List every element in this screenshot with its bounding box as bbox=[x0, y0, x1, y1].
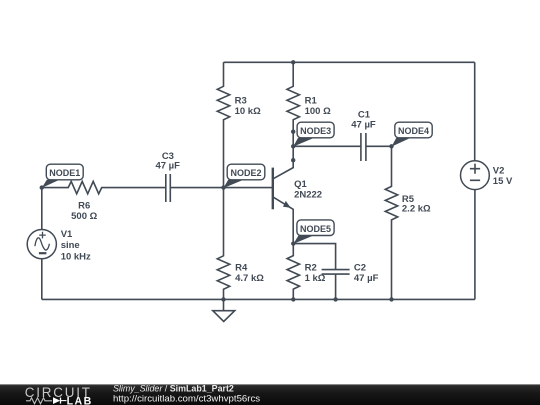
voltage source V1 bbox=[27, 230, 56, 259]
svg-text:R6: R6 bbox=[78, 200, 90, 211]
wire right rail upper bbox=[474, 62, 476, 161]
resistor R6 bbox=[42, 181, 166, 193]
wire NODE5 to C2 bbox=[293, 244, 335, 270]
svg-text:4.7 kΩ: 4.7 kΩ bbox=[235, 273, 264, 284]
wire R1 bottom to collector bbox=[292, 132, 294, 161]
svg-text:2.2 kΩ: 2.2 kΩ bbox=[402, 204, 431, 215]
footer title text bbox=[113, 384, 260, 405]
resistor R1 bbox=[287, 62, 299, 131]
capacitor C3 bbox=[166, 174, 224, 202]
svg-text:LAB: LAB bbox=[67, 396, 93, 405]
svg-text:10 kHz: 10 kHz bbox=[61, 251, 91, 262]
svg-text:47 µF: 47 µF bbox=[351, 119, 376, 130]
label C2 value bbox=[354, 262, 379, 284]
label R6 value bbox=[71, 200, 97, 222]
svg-text:http://circuitlab.com/ct3whvpt: http://circuitlab.com/ct3whvpt56rcs bbox=[113, 394, 260, 405]
svg-text:Q1: Q1 bbox=[294, 179, 307, 190]
voltage source V2 bbox=[461, 161, 490, 190]
svg-text:V1: V1 bbox=[61, 229, 73, 240]
resistor R5 bbox=[385, 146, 397, 299]
wire NODE4 down to R5 bbox=[391, 145, 393, 147]
resistor R4 bbox=[217, 188, 229, 300]
resistor R3 bbox=[217, 62, 229, 187]
label R1 value bbox=[305, 96, 331, 118]
label C3 value bbox=[155, 151, 180, 172]
wire top rail bbox=[224, 61, 475, 63]
wire left rail upper bbox=[41, 188, 43, 230]
label R5 value bbox=[402, 194, 431, 215]
svg-text:15 V: 15 V bbox=[493, 176, 513, 187]
wire NODE2 to Q1 base bbox=[224, 187, 273, 189]
svg-text:100 Ω: 100 Ω bbox=[305, 106, 331, 117]
capacitor C1 bbox=[361, 133, 392, 161]
svg-text:NODE3: NODE3 bbox=[300, 126, 331, 136]
transistor Q1 bbox=[273, 160, 293, 243]
svg-text:R3: R3 bbox=[235, 96, 247, 107]
node NODE2 bbox=[223, 164, 264, 188]
wire bottom rail bbox=[42, 298, 475, 300]
svg-text:1 kΩ: 1 kΩ bbox=[305, 273, 326, 284]
svg-text:NODE1: NODE1 bbox=[49, 168, 80, 178]
footer logo diode arrow bbox=[53, 397, 60, 404]
footer logo CIRCUIT bbox=[25, 385, 92, 400]
label C1 value bbox=[351, 109, 376, 130]
resistor R2 bbox=[287, 244, 299, 300]
ground bbox=[213, 299, 235, 321]
svg-text:47 µF: 47 µF bbox=[354, 273, 379, 284]
label R3 value bbox=[235, 96, 261, 118]
svg-text:C2: C2 bbox=[354, 262, 366, 273]
svg-text:R2: R2 bbox=[305, 262, 317, 273]
svg-text:500 Ω: 500 Ω bbox=[71, 211, 97, 222]
svg-text:V2: V2 bbox=[493, 165, 505, 176]
node NODE1 bbox=[42, 164, 83, 188]
svg-text:47 µF: 47 µF bbox=[155, 161, 180, 172]
wire NODE3 to C1 bbox=[293, 145, 361, 147]
svg-text:R1: R1 bbox=[305, 96, 318, 107]
label V2 value bbox=[493, 165, 513, 187]
footer bar bbox=[0, 384, 540, 405]
footer logo zigzag and diode bbox=[26, 398, 67, 404]
label Q1 value bbox=[294, 179, 322, 200]
footer logo LAB bbox=[67, 396, 93, 405]
svg-text:NODE5: NODE5 bbox=[300, 224, 331, 234]
node NODE3 bbox=[293, 122, 334, 146]
label V1 value bbox=[61, 229, 91, 262]
wire left rail lower bbox=[41, 259, 43, 300]
svg-text:sine: sine bbox=[61, 240, 80, 251]
label R2 value bbox=[305, 262, 326, 284]
svg-text:NODE2: NODE2 bbox=[230, 168, 261, 178]
svg-text:R4: R4 bbox=[235, 263, 248, 274]
node NODE5 bbox=[293, 220, 334, 244]
node NODE4 bbox=[392, 122, 433, 146]
label R4 value bbox=[235, 263, 264, 284]
capacitor C2 bbox=[322, 270, 350, 300]
svg-text:2N222: 2N222 bbox=[294, 190, 322, 201]
svg-text:Slimy_Slider / SimLab1_Part2: Slimy_Slider / SimLab1_Part2 bbox=[113, 384, 234, 394]
svg-text:10 kΩ: 10 kΩ bbox=[235, 106, 261, 117]
svg-text:NODE4: NODE4 bbox=[398, 126, 429, 136]
wire right rail lower bbox=[474, 190, 476, 300]
